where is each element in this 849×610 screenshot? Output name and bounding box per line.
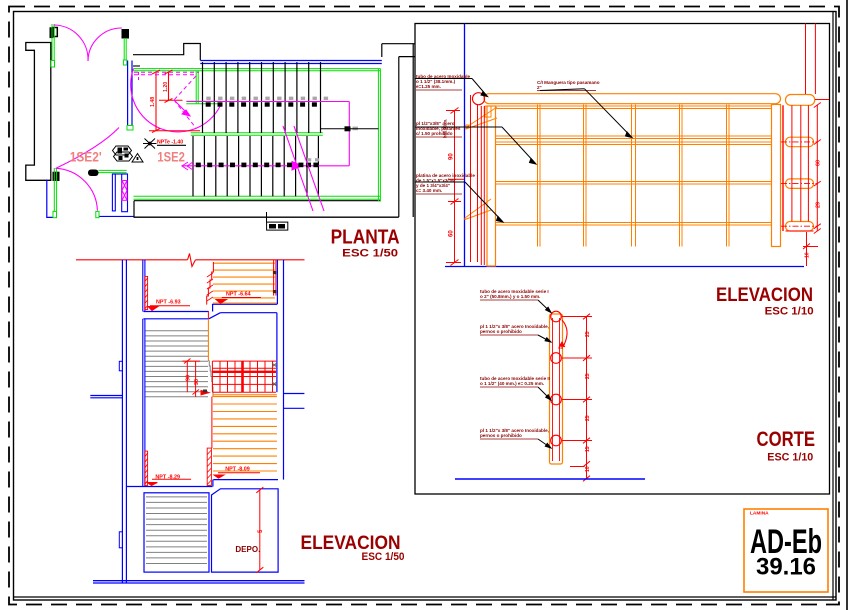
- svg-text:90: 90: [186, 375, 192, 381]
- svg-text:ESC 1/10: ESC 1/10: [767, 452, 813, 464]
- svg-text:c/ 1.50 prohibido: c/ 1.50 prohibido: [416, 131, 453, 136]
- svg-text:29: 29: [816, 202, 822, 208]
- svg-text:pernos o prohibido: pernos o prohibido: [480, 329, 522, 334]
- svg-text:C/I Manguera tipo pasamano: C/I Manguera tipo pasamano: [537, 80, 600, 85]
- svg-text:25: 25: [585, 415, 591, 421]
- svg-text:39.16: 39.16: [756, 554, 816, 581]
- svg-text:ESC 1/50: ESC 1/50: [362, 551, 405, 563]
- svg-text:25: 25: [585, 373, 591, 379]
- svg-text:ESC 1/50: ESC 1/50: [342, 248, 398, 260]
- svg-text:DEPO.: DEPO.: [235, 545, 260, 554]
- svg-text:2": 2": [537, 85, 542, 90]
- svg-text:LAMINA: LAMINA: [750, 511, 769, 517]
- svg-text:10: 10: [585, 466, 591, 472]
- svg-text:e=1.25 mm.: e=1.25 mm.: [416, 84, 441, 89]
- svg-text:60: 60: [816, 160, 822, 166]
- svg-text:90: 90: [449, 153, 455, 160]
- svg-text:ELEVACION: ELEVACION: [716, 285, 813, 306]
- svg-text:15: 15: [585, 446, 591, 452]
- svg-text:ESC 1/10: ESC 1/10: [765, 306, 814, 318]
- svg-text:25: 25: [585, 331, 591, 337]
- svg-text:1.48: 1.48: [150, 97, 156, 107]
- svg-text:o 2" (50.8mm.) y o 1.50 mm.: o 2" (50.8mm.) y o 1.50 mm.: [480, 294, 540, 299]
- svg-text:1.20: 1.20: [163, 82, 169, 92]
- svg-text:NPT -6.93: NPT -6.93: [156, 300, 181, 306]
- svg-text:10: 10: [805, 252, 811, 258]
- svg-text:1SE2': 1SE2': [70, 149, 102, 165]
- svg-text:90: 90: [194, 379, 200, 385]
- svg-text:pernos o prohibido: pernos o prohibido: [480, 433, 522, 438]
- svg-text:NPTe -1.40: NPTe -1.40: [157, 140, 183, 146]
- svg-text:c= 3.40 mm.: c= 3.40 mm.: [416, 188, 442, 193]
- svg-text:1SE2: 1SE2: [157, 149, 185, 165]
- svg-text:45: 45: [558, 345, 564, 350]
- svg-text:NPT -8.09: NPT -8.09: [225, 466, 250, 472]
- svg-text:60: 60: [449, 230, 455, 237]
- svg-text:CORTE: CORTE: [757, 428, 816, 451]
- svg-text:o 1 1/2" (40 mm.) e= 0.25 mm.: o 1 1/2" (40 mm.) e= 0.25 mm.: [480, 381, 544, 386]
- svg-text:NPT -6.64: NPT -6.64: [226, 291, 251, 297]
- svg-text:PLANTA: PLANTA: [331, 227, 400, 249]
